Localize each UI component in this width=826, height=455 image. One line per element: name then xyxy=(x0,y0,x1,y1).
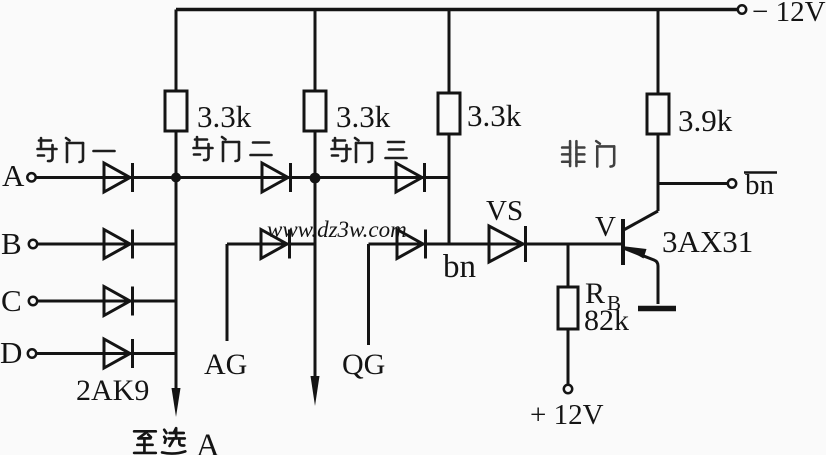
label: inverter name (fei-men) xyxy=(562,141,614,166)
svg-text:C: C xyxy=(1,283,22,318)
wire: bn-bar output line xyxy=(658,182,728,185)
resistor R2 (3.3k) xyxy=(304,91,326,131)
svg-text:− 12V: − 12V xyxy=(752,0,826,28)
node: junction bus1/line1 xyxy=(171,173,181,183)
svg-text:A: A xyxy=(196,428,220,455)
arrow: bus1 output (to select A) xyxy=(172,388,181,417)
svg-text:+ 12V: + 12V xyxy=(530,399,604,431)
svg-text:AG: AG xyxy=(204,348,247,381)
svg-text:3.3k: 3.3k xyxy=(467,98,522,133)
label: gate1 name (yu-men-yi) xyxy=(38,138,115,162)
svg-text:bn: bn xyxy=(443,249,476,285)
svg-text:B: B xyxy=(1,226,22,261)
wire: input C row xyxy=(37,300,176,303)
svg-text:V: V xyxy=(595,211,616,243)
diode VD1 input A xyxy=(104,163,133,192)
svg-text:3.3k: 3.3k xyxy=(197,99,252,134)
wire: AG branch horizontal xyxy=(227,243,315,246)
terminal: input A xyxy=(27,173,35,181)
terminal: bn-bar output xyxy=(728,179,736,187)
label: gate2 name (yu-men-er) xyxy=(194,137,272,161)
resistor RB (82k) xyxy=(558,287,578,329)
wire: QG branch horizontal to transistor base xyxy=(369,243,622,246)
ground xyxy=(638,306,676,312)
terminal: +12V supply xyxy=(564,385,572,393)
transistor V emitter arrow (PNP) xyxy=(622,246,647,259)
resistor R4 (3.9k) xyxy=(647,94,669,134)
node: junction bus2/line1 xyxy=(310,173,321,184)
svg-text:82k: 82k xyxy=(584,304,629,337)
wire: bus1 vertical (gate 1 output) xyxy=(175,10,178,390)
wire: QG input stub xyxy=(367,244,370,345)
terminal: input D xyxy=(28,349,36,357)
wire: bus3 vertical (gate 3 output) xyxy=(448,10,451,245)
wire: line1 gate row (A input through gate diodes) xyxy=(35,176,449,179)
resistor R3 (3.3k) xyxy=(438,93,460,134)
resistor R1 (3.3k) xyxy=(165,91,187,131)
svg-text:VS: VS xyxy=(486,195,523,227)
diode VD4 input D xyxy=(104,339,133,368)
diode VD2 input B xyxy=(104,230,133,259)
overline of bn-bar xyxy=(744,171,777,174)
wire: -12V top supply rail xyxy=(176,8,737,11)
transistor V emitter lead xyxy=(622,248,658,305)
svg-text:A: A xyxy=(2,158,25,193)
wire: input B row xyxy=(37,243,176,246)
svg-text:3.3k: 3.3k xyxy=(336,99,391,134)
diode AG xyxy=(261,230,290,259)
svg-text:3AX31: 3AX31 xyxy=(662,224,753,259)
wire: input D row xyxy=(36,352,176,355)
diode gate3 coupling xyxy=(396,163,425,192)
diode gate2 coupling xyxy=(262,163,291,192)
wire: RB drop from base line xyxy=(567,244,570,385)
wire: collector supply drop to R4 xyxy=(657,10,660,212)
wire: bus2 vertical (gate 2 output) xyxy=(314,10,317,378)
terminal: -12V supply xyxy=(738,5,746,13)
label: to select A (zhi-xuan A) xyxy=(134,428,185,453)
svg-text:2AK9: 2AK9 xyxy=(76,374,149,407)
terminal: input B xyxy=(29,240,37,248)
svg-text:www.dz3w.com: www.dz3w.com xyxy=(267,217,407,242)
svg-text:3.9k: 3.9k xyxy=(678,103,733,138)
diode VD3 input C xyxy=(104,287,133,316)
wire: AG input stub xyxy=(226,244,229,341)
svg-text:QG: QG xyxy=(342,348,385,381)
arrow: bus2 output xyxy=(311,376,320,406)
svg-text:bn: bn xyxy=(745,169,775,201)
diode QG xyxy=(397,230,426,259)
terminal: input C xyxy=(29,297,37,305)
diode VS xyxy=(489,226,526,262)
transistor V collector lead xyxy=(625,211,659,230)
label: gate3 name (yu-men-san) xyxy=(332,138,407,162)
transistor V (3AX31) base bar xyxy=(621,219,625,265)
svg-text:D: D xyxy=(0,335,22,370)
